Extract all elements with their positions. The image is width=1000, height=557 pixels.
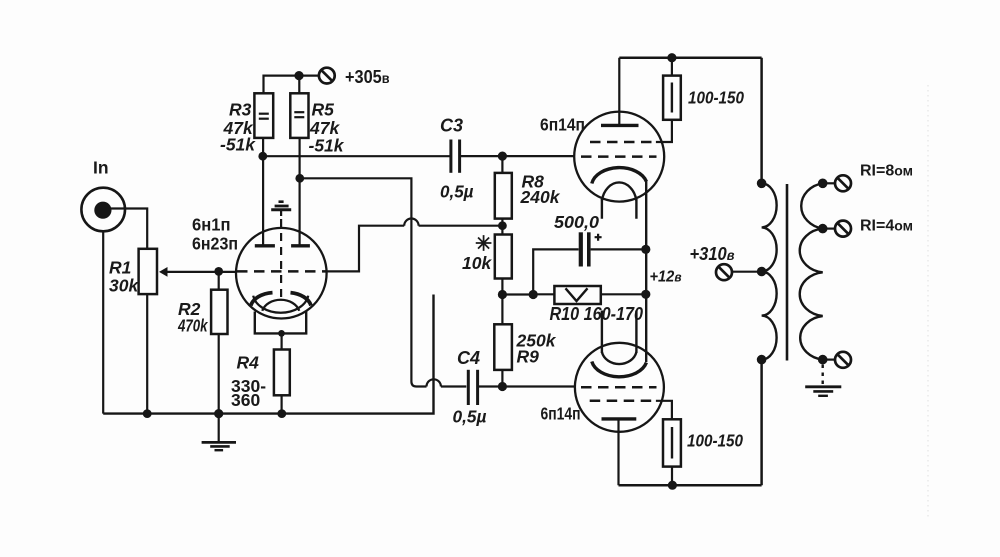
U1 anode a1 plate <box>255 244 275 247</box>
svg-text:6п14п: 6п14п <box>541 404 581 424</box>
node R2 bottom on rail <box>214 409 223 418</box>
transformer core <box>786 184 789 361</box>
svg-text:10k: 10k <box>462 253 492 273</box>
svg-text:In: In <box>93 158 109 178</box>
node screen resistor bottom <box>668 481 677 490</box>
svg-text:30k: 30k <box>109 276 139 296</box>
wire to +305v terminal <box>299 74 319 76</box>
transformer primary winding <box>762 183 777 359</box>
wire primary bottom lead <box>760 360 763 486</box>
node R10 right <box>641 290 650 299</box>
svg-text:+12в: +12в <box>650 269 682 286</box>
resistor R8 <box>501 156 503 173</box>
node screen resistor top <box>667 53 676 62</box>
wire transformer primary top lead <box>760 58 763 184</box>
node primary top <box>757 179 767 189</box>
resistor R3 <box>254 93 273 138</box>
V1 anode lead wire <box>618 58 620 126</box>
capacitor C3 <box>449 140 452 173</box>
U1 cathode bracket <box>255 312 306 334</box>
U1 internal shield symbol <box>279 200 284 203</box>
resistor R9 <box>501 295 503 325</box>
U1 cathode left arc <box>251 293 273 306</box>
V2 screen lead wire <box>656 401 672 420</box>
wire hop to C4 left plate <box>441 385 466 387</box>
node R5 bottom <box>295 174 304 183</box>
wire hop over vertical at x433 <box>427 379 441 386</box>
svg-text:R4: R4 <box>237 353 260 373</box>
svg-text:100-150: 100-150 <box>687 431 743 451</box>
node cap R10 left <box>529 290 538 299</box>
capacitor C4 <box>467 370 470 405</box>
node R4 bottom on rail <box>277 409 286 418</box>
label plus cap <box>595 234 602 241</box>
wire +12v cathode line <box>645 181 647 363</box>
svg-text:100-150: 100-150 <box>688 88 744 108</box>
ground symbol secondary <box>805 385 841 388</box>
node R3 bottom <box>258 152 267 161</box>
node secondary tap 4om <box>818 224 828 234</box>
triode U1 6n1p envelope <box>236 228 327 319</box>
wire secondary tap to terminal <box>823 228 835 230</box>
R1 bottom lead wire <box>146 294 148 414</box>
V2 anode lead wire <box>617 419 619 485</box>
ground symbol below R2 <box>218 414 220 442</box>
node 10k bottom <box>498 290 507 299</box>
wire up to 500uF cap <box>533 249 578 294</box>
U1 anode a1 lead wire up to R3 <box>262 138 264 246</box>
V2 cathode arc <box>592 362 647 377</box>
wire center tap to +310v terminal <box>732 271 762 273</box>
U1 anode a2 plate <box>291 244 310 247</box>
node cap right <box>641 245 650 254</box>
R1 wiper arrow <box>159 267 168 277</box>
V2 heater legs <box>602 311 637 354</box>
node B+ top junction <box>294 71 303 80</box>
wire R3 bottom to C3 <box>263 155 450 157</box>
svg-text:R3: R3 <box>229 100 252 120</box>
node secondary bottom <box>818 355 828 365</box>
svg-text:C3: C3 <box>440 116 463 136</box>
svg-text:C4: C4 <box>457 348 480 368</box>
node primary center tap <box>757 267 767 277</box>
V2 anode plate <box>602 417 637 420</box>
terminal secondary ground <box>835 352 851 368</box>
resistor R5 <box>290 93 308 138</box>
svg-text:0,5µ: 0,5µ <box>440 182 474 202</box>
node secondary top <box>818 179 828 189</box>
pentode V2 6p14p lower envelope <box>575 343 664 432</box>
terminal +305v <box>319 68 335 84</box>
V1 heater arc <box>602 182 637 200</box>
V1 control grid dashed <box>581 155 657 158</box>
U1 grid2 wire right up to divider node <box>326 226 404 272</box>
resistor R10 <box>533 293 554 295</box>
svg-text:+305в: +305в <box>345 67 390 87</box>
svg-text:-51k: -51k <box>220 135 256 155</box>
svg-text:R9: R9 <box>517 347 540 367</box>
wire wiper to grid node <box>167 271 238 273</box>
V1 cathode arc <box>592 168 647 184</box>
dashed wire to ground <box>822 365 824 386</box>
faint scan artifact dotted line <box>927 85 929 520</box>
V1 screen lead wire <box>656 120 672 142</box>
svg-text:R1: R1 <box>109 258 131 278</box>
wire jack signal to R1 top <box>111 209 147 249</box>
U1 heater inner arc <box>262 300 299 311</box>
node R2 top junction <box>214 267 223 276</box>
pentode V1 6p14p upper envelope <box>574 112 664 202</box>
svg-text:360: 360 <box>231 390 260 410</box>
U1 cathode right arc <box>291 293 312 306</box>
resistor R2 <box>218 271 220 289</box>
wire cap right to +12v line <box>591 248 646 250</box>
svg-text:+310в: +310в <box>690 244 735 264</box>
svg-text:R5: R5 <box>312 100 335 120</box>
resistor 10k <box>495 235 512 279</box>
wire R5 bottom right then down (to C4) <box>300 178 427 386</box>
V1 screen grid dashed <box>590 141 656 144</box>
V1 anode plate <box>601 124 639 127</box>
svg-text:470k: 470k <box>177 316 208 336</box>
node C4 right <box>498 382 507 391</box>
wire 10k bottom to cap node <box>502 293 533 295</box>
node cathode to R4 <box>278 330 285 337</box>
terminal RI=4om <box>835 221 851 237</box>
svg-text:-51k: -51k <box>309 136 345 156</box>
node primary bottom <box>757 355 767 365</box>
V2 screen grid dashed <box>590 400 656 403</box>
V2 heater arc <box>602 352 637 364</box>
node R1 bottom on rail <box>143 409 152 418</box>
input jack In <box>81 188 125 232</box>
transformer secondary winding <box>800 183 823 359</box>
ground rail wire <box>103 295 433 414</box>
wire C4 to node <box>479 385 575 387</box>
svg-text:6н1п: 6н1п <box>192 215 231 235</box>
capacitor 500,0 <box>579 232 583 266</box>
anode bottom wire to transformer <box>619 484 762 487</box>
wire C3 to node <box>461 155 575 157</box>
anode top wire to transformer <box>619 56 761 59</box>
U1 anode a2 lead wire up to R5 <box>299 138 301 246</box>
svg-text:6п14п: 6п14п <box>540 115 585 135</box>
R5 top lead wire <box>298 76 300 94</box>
U1 heater outer arc <box>253 296 308 313</box>
node R8 bottom divider <box>498 221 507 230</box>
svg-text:0,5µ: 0,5µ <box>453 407 487 427</box>
R3 top lead wire <box>264 76 300 94</box>
R2 bottom lead wire <box>218 334 220 414</box>
potentiometer R1 <box>139 249 157 294</box>
terminal RI=8om <box>835 175 851 191</box>
svg-text:6н23п: 6н23п <box>192 234 238 254</box>
screen resistor 100-150 lower <box>663 419 681 466</box>
svg-text:RI=8ом: RI=8ом <box>860 163 913 180</box>
V2 control grid dashed <box>581 386 657 389</box>
node C3 right <box>498 152 507 161</box>
screen resistor 100-150 upper <box>671 58 673 76</box>
wire jack sleeve down to ground rail <box>102 231 104 413</box>
resistor R4 <box>281 333 283 349</box>
svg-text:500,0: 500,0 <box>554 212 599 232</box>
wire hop over vertical at x411 <box>404 219 418 226</box>
svg-text:R10 160-170: R10 160-170 <box>550 304 644 324</box>
svg-text:RI=4ом: RI=4ом <box>860 218 913 235</box>
terminal +310v <box>716 264 732 280</box>
svg-text:240k: 240k <box>520 187 561 207</box>
U1 grid dashed line <box>237 270 326 273</box>
wire secondary bottom to terminal <box>823 359 835 361</box>
V1 heater legs <box>602 199 637 219</box>
wire secondary top to terminal <box>823 182 835 184</box>
